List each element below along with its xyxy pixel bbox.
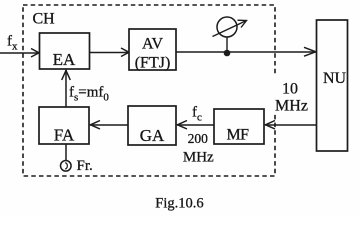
label Fr.: [77, 158, 93, 174]
svg-text:MHz: MHz: [183, 149, 214, 165]
block EA: [40, 33, 90, 69]
wire EA to AV: [90, 48, 130, 57]
label CH: [33, 11, 56, 28]
wire FA to reference oscillator: [65, 144, 67, 161]
wire GA to FA: [90, 121, 128, 130]
block AV (FTJ): [129, 29, 176, 72]
meter / indicator symbol: [213, 17, 247, 52]
svg-text:Fig.10.6: Fig.10.6: [155, 195, 203, 211]
svg-text:MF: MF: [226, 127, 249, 144]
net label fc: [192, 105, 202, 124]
enclosure CH (dashed box): [23, 5, 275, 176]
junction node on output wire: [224, 50, 231, 57]
wire MF to GA: [177, 121, 214, 130]
svg-text:200: 200: [188, 131, 209, 146]
svg-text:(FTJ): (FTJ): [135, 55, 171, 72]
block MF: [214, 109, 264, 144]
svg-text:EA: EA: [53, 50, 76, 69]
wire NU to MF: [265, 121, 317, 130]
svg-text:FA: FA: [54, 126, 75, 145]
svg-text:GA: GA: [140, 126, 165, 145]
block FA: [39, 107, 89, 145]
label 10 MHz (white backing over dashed edge): [271, 74, 308, 115]
net label fx: [7, 34, 18, 53]
reference oscillator Fr: [61, 161, 72, 172]
svg-text:CH: CH: [33, 11, 56, 28]
net label fs=mf0: [69, 85, 109, 104]
svg-text:10: 10: [282, 81, 298, 98]
wire AV to NU: [176, 47, 316, 56]
svg-text:AV: AV: [142, 36, 163, 53]
value label 200 MHz: [183, 131, 214, 165]
wire fx input to EA: [0, 49, 39, 58]
wire FA to EA: [62, 70, 71, 107]
block GA: [128, 106, 176, 145]
block NU: [317, 20, 348, 151]
svg-text:Fr.: Fr.: [77, 158, 93, 174]
svg-text:MHz: MHz: [275, 98, 308, 115]
caption Fig.10.6: [155, 195, 203, 211]
svg-text:NU: NU: [323, 70, 347, 87]
